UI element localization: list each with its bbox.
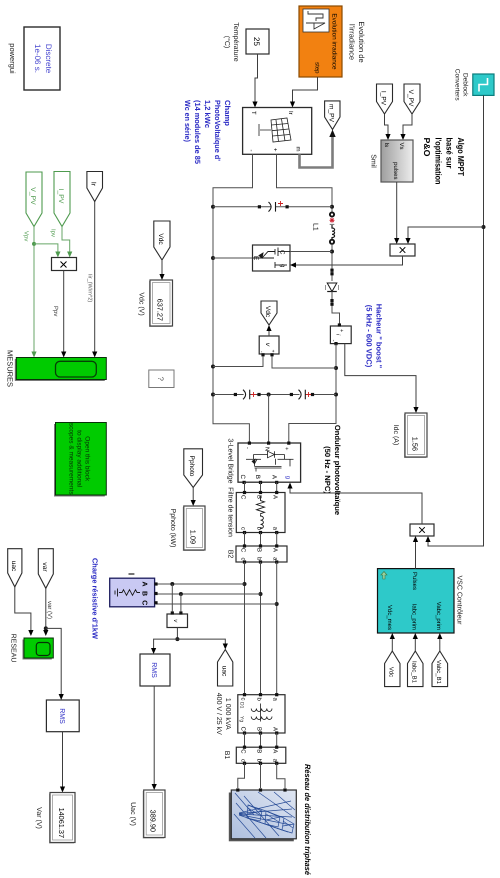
svg-text:P&O: P&O — [422, 138, 432, 157]
svg-text:I_PV: I_PV — [380, 91, 387, 106]
wire var to RMS2 — [46, 628, 61, 697]
svg-text:C: C — [240, 749, 247, 754]
svg-text:1,2 kWc: 1,2 kWc — [203, 100, 212, 128]
svg-text:Wc en série): Wc en série) — [183, 100, 192, 142]
svg-text:D1: D1 — [239, 702, 245, 709]
capacitor C1 branch — [213, 201, 332, 212]
wire VM2 - from branch B — [180, 594, 182, 611]
svg-text:Smil: Smil — [370, 154, 378, 168]
wire RMS1 to display — [153, 686, 155, 788]
wire inverter B to filter — [260, 482, 262, 492]
svg-text:Uac (V): Uac (V) — [129, 802, 137, 826]
wire load branch B — [156, 593, 261, 595]
svg-text:400 V / 25 kV: 400 V / 25 kV — [215, 693, 223, 735]
wire Vdc to display — [161, 260, 163, 278]
wire load branch C — [156, 603, 277, 605]
svg-text:basé sur: basé sur — [445, 138, 455, 170]
svg-text:Evolution irradiance: Evolution irradiance — [331, 13, 338, 70]
svg-text:A: A — [272, 548, 279, 552]
wire uac to RMS1 — [154, 639, 178, 651]
wire deblock to product1 — [408, 227, 484, 242]
svg-text:Iir_(W/m^2): Iir_(W/m^2) — [87, 274, 93, 302]
port circle L1 left — [330, 212, 334, 216]
svg-text:-: - — [330, 340, 336, 342]
inverter U1 3-Level Bridge — [238, 442, 301, 485]
wire B1 a to grid — [277, 763, 285, 788]
svg-text:(14 modules de 85: (14 modules de 85 — [193, 100, 202, 165]
wire Vpv branch to product — [34, 244, 58, 252]
grid source block (Reseau picture) — [229, 788, 297, 841]
svg-text:Deblock: Deblock — [462, 73, 469, 97]
node junction deblock split — [482, 225, 486, 229]
current measurement block Idc — [330, 323, 351, 345]
svg-text:Champ: Champ — [223, 100, 232, 126]
wire phase b B2 to transformer — [260, 562, 262, 695]
svg-text:Converters: Converters — [454, 69, 461, 102]
svg-text:14061.37: 14061.37 — [57, 808, 66, 838]
display Pphoto value 1.09 — [183, 506, 205, 551]
wire Ppv to MESURES — [63, 271, 65, 356]
svg-text:1 000 kVA: 1 000 kVA — [224, 698, 232, 730]
svg-text:Réseau de distribution triphas: Réseau de distribution triphasé — [303, 764, 312, 876]
node junction phase b load tap — [259, 592, 263, 596]
wire product1 to IGBT gate — [293, 256, 403, 265]
From tag Iabc_B1 — [408, 651, 424, 687]
svg-text:389.90: 389.90 — [149, 810, 158, 832]
svg-text:scopes & measurements: scopes & measurements — [68, 423, 75, 495]
step source Deblock Converters (teal) — [473, 74, 494, 95]
goto tag uac — [218, 650, 233, 687]
svg-text:Vpv: Vpv — [23, 231, 30, 241]
wire VM1 v out to goto Vdc — [268, 328, 270, 336]
svg-text:B: B — [256, 495, 263, 499]
svg-text:B: B — [256, 727, 263, 731]
svg-text:Pphoto: Pphoto — [188, 456, 195, 477]
wire filter b to B2 — [260, 533, 262, 547]
svg-text:B1: B1 — [223, 751, 230, 760]
svg-text:pulses: pulses — [392, 162, 399, 179]
svg-text:C: C — [239, 475, 246, 480]
node junction VM2 - tap — [179, 592, 183, 596]
svg-text:Charge résistive d'1kW: Charge résistive d'1kW — [91, 558, 100, 639]
svg-text:A: A — [141, 581, 148, 586]
svg-text:Evolution de: Evolution de — [357, 21, 366, 62]
scope subsystem RESEAU (green) — [23, 638, 54, 660]
svg-text:Vabc_B1: Vabc_B1 — [435, 660, 442, 685]
svg-text:Is: Is — [383, 143, 390, 148]
svg-text:m_PV: m_PV — [328, 104, 335, 123]
node junction IGBT emitter — [211, 256, 215, 260]
display Idc value 1.56 — [404, 413, 427, 458]
display Var value 14061.37 — [49, 793, 75, 844]
wire VM2 + from branch A — [171, 584, 173, 611]
svg-text:to display additional: to display additional — [76, 430, 83, 488]
svg-text:RMS: RMS — [150, 662, 157, 678]
VSC controller subsystem (teal) — [378, 569, 455, 633]
wire transformer B to B1 — [260, 733, 262, 747]
wire phase c B2 to transformer — [244, 562, 246, 695]
wire Idc signal to display — [345, 344, 416, 411]
From tag Vdc (VSC) — [385, 651, 400, 687]
svg-text:V_PV: V_PV — [29, 187, 36, 205]
svg-text:c: c — [240, 698, 246, 701]
svg-text:637.27: 637.27 — [156, 299, 165, 321]
svg-text:Hacheur " boost ": Hacheur " boost " — [375, 304, 384, 369]
svg-text:-: - — [244, 447, 250, 449]
wire product2 to inverter gate — [290, 485, 422, 524]
svg-text:+: + — [270, 350, 276, 353]
wire Deblock enable net — [428, 95, 484, 546]
svg-text:Vdc: Vdc — [157, 233, 164, 245]
svg-text:B: B — [141, 591, 148, 596]
svg-text:RESEAU: RESEAU — [10, 634, 17, 663]
label dash — [129, 573, 135, 575]
wire inverter C to filter — [244, 482, 246, 492]
wire var to RESEAU — [45, 588, 47, 633]
node junction Vpv — [32, 242, 36, 246]
svg-text:Discrete: Discrete — [44, 44, 53, 74]
node junction phase c load tap — [243, 582, 247, 586]
PV array block Champ PhotoVoltaique — [243, 108, 312, 155]
svg-text:-: - — [248, 150, 254, 152]
inductor L1 — [330, 218, 335, 239]
measurement block B1 — [236, 746, 286, 765]
svg-text:?: ? — [156, 376, 165, 381]
signal builder Evolution irradiance (orange) — [299, 6, 342, 77]
svg-text:l'optimisation: l'optimisation — [433, 138, 443, 185]
filter block (Filtre de tension) — [236, 491, 285, 534]
svg-text:Pulses: Pulses — [411, 572, 418, 590]
svg-text:Pphoto (kW): Pphoto (kW) — [169, 509, 177, 548]
svg-text:Vabc_prim: Vabc_prim — [435, 602, 442, 630]
node junction uac split — [175, 637, 179, 641]
svg-text:Open this block: Open this block — [84, 436, 91, 482]
wire N to inverter — [268, 395, 270, 442]
product1 (gating multiply) — [390, 244, 415, 256]
wire IGBT E to DC- — [213, 257, 253, 259]
svg-text:N: N — [264, 447, 270, 451]
IGBT Q1 (boost switch) — [252, 245, 290, 271]
wire Vabc_B1 to VSC — [439, 636, 441, 652]
svg-text:B: B — [254, 475, 261, 479]
From tag Pphoto — [184, 449, 203, 488]
svg-text:Vdc (V): Vdc (V) — [138, 292, 146, 315]
svg-text:C: C — [240, 727, 247, 732]
wire uac to RESEAU — [15, 587, 31, 634]
svg-text:PhotoVoltaïque d': PhotoVoltaïque d' — [213, 100, 222, 161]
wire RMS2 to display — [62, 732, 64, 790]
svg-text:Onduleur photovoltaïque: Onduleur photovoltaïque — [333, 425, 342, 515]
wire Ir to MESURES — [94, 202, 96, 356]
svg-text:m: m — [295, 147, 301, 152]
svg-text:B2: B2 — [227, 550, 234, 559]
wire 25 to PV T input — [255, 54, 258, 105]
svg-text:Ppv: Ppv — [52, 306, 59, 316]
svg-text:C: C — [240, 548, 247, 553]
From tag Vabc_B1 — [432, 651, 448, 687]
svg-text:(50 Hz - NPC): (50 Hz - NPC) — [323, 446, 332, 494]
wire load branch A — [156, 583, 245, 585]
svg-text:1.56: 1.56 — [411, 437, 420, 451]
MESURES subsystem block — [15, 358, 107, 382]
svg-text:(5 kHz - 600 VDC): (5 kHz - 600 VDC) — [365, 305, 374, 368]
svg-text:g: g — [285, 476, 291, 479]
wire pulses to product1 — [396, 182, 398, 242]
product Ppv (multiply) — [52, 258, 77, 271]
node junction phase a load tap — [275, 602, 279, 606]
svg-text:Yg: Yg — [239, 716, 245, 722]
RMS block 1 — [140, 654, 170, 686]
display Vdc value 637.27 — [149, 280, 173, 327]
wire L1 to diode — [331, 244, 333, 282]
node junction IGBT collector tap — [330, 250, 334, 254]
wire IGBT C to DC+ — [290, 251, 332, 253]
node junction VM- tap — [211, 365, 215, 369]
wire B1 c to grid — [238, 763, 245, 788]
node junction cap2 top — [334, 393, 338, 397]
svg-text:Ir: Ir — [287, 111, 294, 115]
wire step to PV Ir input — [293, 77, 318, 105]
node N (midpoint) — [267, 393, 271, 397]
svg-text:+: + — [272, 148, 278, 152]
wire diode to measure — [332, 292, 340, 325]
transformer T1 three-phase — [238, 693, 285, 735]
constant 25 (temperature) — [246, 29, 269, 54]
From tag Vdc (display feed) — [154, 221, 170, 260]
unknown block ? — [149, 370, 174, 388]
svg-text:C: C — [240, 495, 247, 500]
product2 (VSC pulses multiply) — [410, 524, 434, 536]
svg-text:E: E — [252, 256, 259, 261]
measurement block B2 — [236, 544, 287, 563]
svg-text:VSC Contrôleur: VSC Contrôleur — [456, 575, 464, 625]
svg-text:3-Level Bridge: 3-Level Bridge — [227, 438, 235, 483]
svg-text:T: T — [250, 111, 257, 115]
svg-text:1.09: 1.09 — [189, 530, 198, 544]
svg-text:B: B — [256, 548, 263, 552]
terminal squares diode anode — [330, 269, 333, 272]
voltage measurement VM1 (Vdc) — [259, 336, 280, 356]
three-phase load Charge resistive (violet) — [110, 578, 158, 607]
svg-text:A: A — [272, 495, 279, 499]
svg-text:A: A — [272, 749, 279, 753]
node junction cap2 bottom — [211, 393, 215, 397]
diode D1 — [326, 283, 339, 292]
wire Ipv to product — [62, 227, 70, 253]
label Champ PhotoVoltaique — [183, 100, 232, 165]
svg-text:Température: Température — [232, 22, 240, 61]
svg-text:(°C): (°C) — [223, 36, 231, 49]
wire Vdc to VSC — [391, 636, 393, 652]
MPPT subsystem Smil (gray) — [381, 140, 413, 182]
wire inverter A to filter — [276, 482, 278, 492]
svg-text:uac: uac — [220, 666, 227, 677]
From tag V_PV (MPPT input) — [404, 84, 420, 114]
svg-text:Var (V): Var (V) — [35, 807, 43, 829]
wire filter a to B2 — [276, 533, 278, 547]
node junction cap1 bottom — [211, 205, 215, 209]
svg-text:Ipv: Ipv — [50, 229, 57, 237]
port circle L1 right — [330, 240, 334, 244]
svg-text:var (V): var (V) — [46, 601, 53, 619]
svg-text:powergui: powergui — [8, 43, 17, 74]
terminal squares diode cathode — [330, 299, 333, 302]
svg-text:C: C — [141, 600, 148, 605]
svg-text:C: C — [279, 250, 286, 255]
svg-text:Ir: Ir — [90, 182, 97, 187]
wire transformer C to B1 — [244, 733, 246, 747]
wire VSC Pulses to product2 — [415, 539, 417, 569]
wire VM1 + to DC+ — [272, 356, 336, 368]
annotation Algo MPPT — [422, 138, 466, 185]
svg-text:L1: L1 — [312, 223, 319, 231]
svg-text:Filtre de tension: Filtre de tension — [227, 487, 235, 537]
From tag var — [38, 549, 53, 589]
svg-text:Idc (A): Idc (A) — [392, 425, 400, 446]
svg-text:c: c — [240, 759, 246, 762]
svg-text:Vdc_mes: Vdc_mes — [386, 605, 393, 630]
wire VM2 v out — [176, 628, 178, 640]
svg-text:MESURES: MESURES — [6, 350, 15, 387]
svg-text:25: 25 — [252, 37, 261, 46]
wire V_PV to Smil Vs — [403, 114, 412, 138]
goto tag Vdc — [261, 301, 277, 325]
svg-text:Iabc_prim: Iabc_prim — [411, 604, 418, 630]
svg-text:V_PV: V_PV — [407, 90, 414, 107]
wire uac to goto — [177, 639, 225, 647]
From tag I_PV (MPPT input) — [377, 84, 393, 114]
wire Vpv from V_PV to MESURES — [33, 227, 35, 356]
powergui block — [24, 27, 60, 90]
svg-text:uac: uac — [10, 561, 17, 572]
wire DC+ from PV + port — [277, 154, 333, 212]
wire m to m_PV (thick measurement bus) — [300, 134, 333, 168]
svg-text:RMS: RMS — [58, 708, 65, 724]
node junction cap1 top — [330, 205, 334, 209]
svg-text:1e-06 s.: 1e-06 s. — [33, 44, 42, 73]
svg-text:Vdc: Vdc — [264, 306, 271, 318]
wire I_PV to Smil Is — [385, 114, 389, 138]
wire DC+ rail to inverter + — [289, 344, 336, 442]
goto tag m_PV — [325, 101, 340, 130]
wire phase a B2 to transformer — [276, 562, 278, 695]
From tag I_PV (left column) — [54, 172, 70, 227]
From tag V_PV (left column) — [26, 172, 42, 227]
From tag uac (RESEAU feed) — [8, 549, 22, 587]
svg-text:+: + — [338, 329, 344, 332]
display Uac value 389.90 — [143, 790, 165, 839]
svg-text:step: step — [314, 62, 320, 74]
annotation note block (Open this block...) — [54, 423, 106, 497]
RMS block 2 — [46, 700, 79, 732]
node junction VM2 + tap — [170, 582, 174, 586]
From tag Ir (left column) — [87, 172, 103, 202]
svg-text:Iabc_B1: Iabc_B1 — [411, 661, 418, 684]
wire VM1 - to DC- — [213, 356, 263, 366]
wire DC- bus — [213, 154, 253, 441]
wire B1 b to grid — [260, 763, 262, 788]
svg-text:l'irradiance: l'irradiance — [348, 24, 357, 60]
svg-text:Algo MPPT: Algo MPPT — [456, 138, 466, 177]
capacitor C2 branch (DC link split) — [213, 390, 336, 400]
voltage measurement VM2 (uac) — [167, 611, 188, 627]
svg-text:var: var — [41, 562, 48, 572]
svg-text:A: A — [272, 727, 279, 731]
svg-text:c: c — [240, 558, 246, 561]
node junction var split — [44, 626, 48, 630]
wire Iabc_B1 to VSC — [414, 636, 416, 652]
svg-text:I_PV: I_PV — [57, 189, 64, 204]
node junction VM+ tap — [334, 366, 338, 370]
wire Pphoto to display — [192, 488, 194, 504]
svg-text:Vs: Vs — [398, 143, 405, 150]
wire filter c to B2 — [244, 533, 246, 547]
wire transformer A to B1 — [276, 733, 278, 747]
svg-text:c: c — [240, 527, 246, 530]
svg-text:Vdc: Vdc — [388, 667, 395, 677]
svg-text:B: B — [256, 749, 263, 753]
